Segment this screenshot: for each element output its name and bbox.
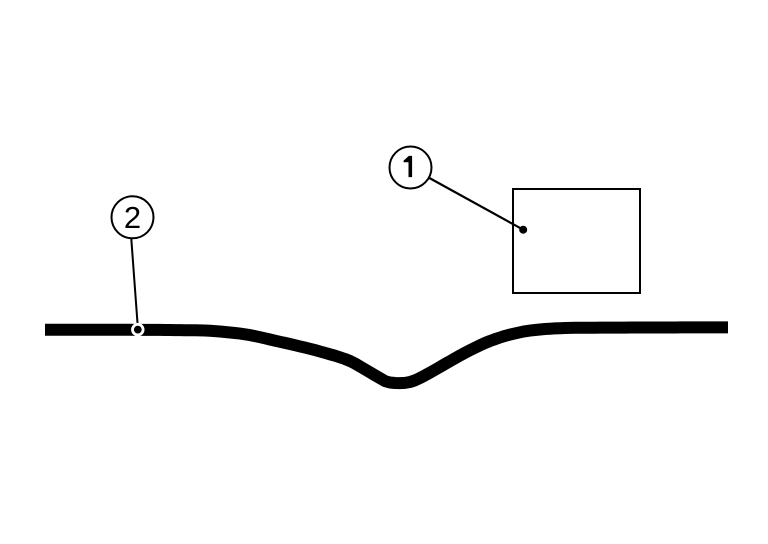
svg-text:2: 2 (124, 200, 141, 235)
label patch box (513, 189, 640, 293)
callout text 1 (404, 156, 413, 177)
marker halo 2 (131, 323, 144, 336)
leader line 1 (429, 178, 524, 230)
panel surface line with dip (45, 327, 728, 383)
leader dot 2 (134, 326, 142, 334)
callout circle 2 (112, 196, 154, 238)
leader dot 1 (519, 226, 527, 234)
leader line 2 (131, 239, 138, 327)
callout circle 1 (390, 147, 432, 189)
